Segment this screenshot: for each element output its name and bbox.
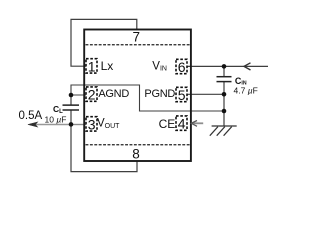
wire CL branch vertical xyxy=(70,95,72,124)
svg-text:1: 1 xyxy=(88,59,96,75)
junction node PGND xyxy=(222,92,227,97)
wire AGND node to ground net (over the top of labels) xyxy=(71,85,224,111)
wire VOUT pin3 to node xyxy=(71,124,86,126)
junction node VIN/CIN xyxy=(222,64,227,69)
IC U1 package outline xyxy=(84,30,191,162)
pin 6 box xyxy=(176,59,187,75)
CE enable arrow (gray) xyxy=(191,121,203,127)
svg-text:4.7 µF: 4.7 µF xyxy=(234,86,258,96)
junction node VOUT/CL xyxy=(69,122,74,127)
svg-text:0.5A: 0.5A xyxy=(19,110,43,122)
capacitor CL plates xyxy=(63,105,80,110)
wire VOUT node down and around to bottom pad 8 xyxy=(71,124,137,171)
svg-text:CE: CE xyxy=(159,117,176,131)
pin 1 box xyxy=(86,59,97,75)
pin 3 box xyxy=(86,117,97,133)
svg-text:4: 4 xyxy=(178,116,186,132)
svg-text:PGND: PGND xyxy=(144,88,175,100)
svg-text:6: 6 xyxy=(178,59,186,75)
svg-text:8: 8 xyxy=(132,146,140,161)
svg-text:10 µF: 10 µF xyxy=(45,114,67,124)
svg-text:Lx: Lx xyxy=(101,59,114,73)
IC inner dashed boundary bottom xyxy=(86,144,191,146)
capacitor CIN plates xyxy=(217,77,232,82)
svg-text:3: 3 xyxy=(88,117,96,133)
wire AGND pin2 to node xyxy=(71,94,86,96)
input arrow on VIN wire xyxy=(244,63,251,70)
wire VIN pin6 to input xyxy=(187,65,268,67)
output current arrow 0.5A (gray) xyxy=(28,122,71,127)
junction node AGND/CL xyxy=(69,93,74,98)
svg-text:2: 2 xyxy=(88,87,96,103)
ground symbol xyxy=(210,126,237,136)
wire Lx loop from pin1 to top pad 7 xyxy=(71,19,137,66)
wire CIN branch vertical down to ground xyxy=(223,66,225,126)
junction node AGND-to-ground xyxy=(222,109,227,114)
svg-text:5: 5 xyxy=(178,87,186,103)
pin 2 box xyxy=(86,87,97,103)
wire PGND pin5 to ground net xyxy=(187,93,224,95)
IC inner dashed boundary top xyxy=(86,44,191,46)
pin 4 box xyxy=(176,116,187,132)
pin 5 box xyxy=(176,87,187,103)
svg-text:7: 7 xyxy=(133,30,141,45)
svg-text:AGND: AGND xyxy=(98,88,129,100)
